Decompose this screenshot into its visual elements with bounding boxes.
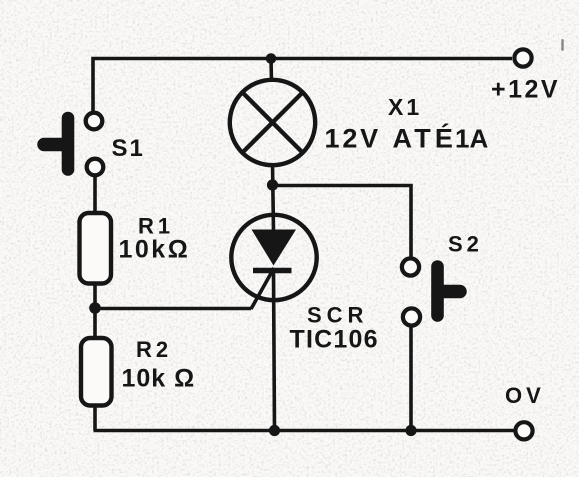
lamp X1 circle [230,80,315,165]
terminal +12V [514,49,531,66]
pushbutton S2 plunger bar [431,267,444,316]
wire R2 to bottom rail [93,405,97,431]
resistor R2 body [81,338,112,406]
wire S2 to bottom rail [409,326,413,431]
pushbutton S1 plunger stem [44,138,66,152]
wire top rail from left corner to +12V terminal [93,59,512,114]
SCR anode triangle [252,230,297,266]
svg-text:10kΩ: 10kΩ [119,236,191,264]
SCR cathode bar [253,268,292,274]
wire S1 to R1 [93,176,97,216]
wire lamp to top rail [269,59,273,83]
svg-text:OV: OV [505,383,545,408]
pushbutton S2 plunger stem [440,285,460,299]
wire SCR cathode to bottom rail [274,270,275,431]
svg-text:X1: X1 [388,94,422,120]
pushbutton S2 bottom contact [403,308,420,325]
svg-text:SCR: SCR [307,303,368,328]
wire gate horizontal [95,307,251,311]
svg-text:+12V: +12V [491,76,560,104]
svg-text:ATÉ: ATÉ [393,123,458,154]
lamp X1 cross diagonal 1 [243,93,303,153]
SCR U1 circle [231,215,316,300]
node junction dot S2 bottom rail [405,425,416,436]
wire R1 to junction to R2 [93,283,97,339]
pushbutton S1 bottom contact [87,159,104,176]
wire bottom rail [94,429,515,433]
pushbutton S2 top contact [402,258,419,275]
svg-text:R2: R2 [136,337,172,362]
terminal 0V [515,422,532,439]
svg-text:S1: S1 [112,135,145,162]
node junction dot SCR bottom rail [269,425,280,436]
lamp X1 cross diagonal 2 [243,93,303,153]
svg-text:S2: S2 [448,232,483,257]
wire branch to S2 [273,186,412,258]
resistor R1 body [80,213,112,284]
svg-text:TIC106: TIC106 [290,326,379,354]
pushbutton S1 plunger bar [62,118,75,170]
pushbutton S1 top contact [86,113,103,130]
node junction dot R1 R2 gate [89,302,101,314]
scan artifact mark top right [561,39,563,51]
node junction dot top rail at lamp [266,53,277,64]
wire lamp bottom to SCR anode [273,163,274,232]
svg-text:12V: 12V [325,124,381,154]
node junction dot between lamp and SCR [267,179,278,190]
svg-text:10k Ω: 10k Ω [122,365,196,393]
svg-text:1A: 1A [455,124,488,154]
wire gate diagonal to SCR cathode [251,268,274,309]
